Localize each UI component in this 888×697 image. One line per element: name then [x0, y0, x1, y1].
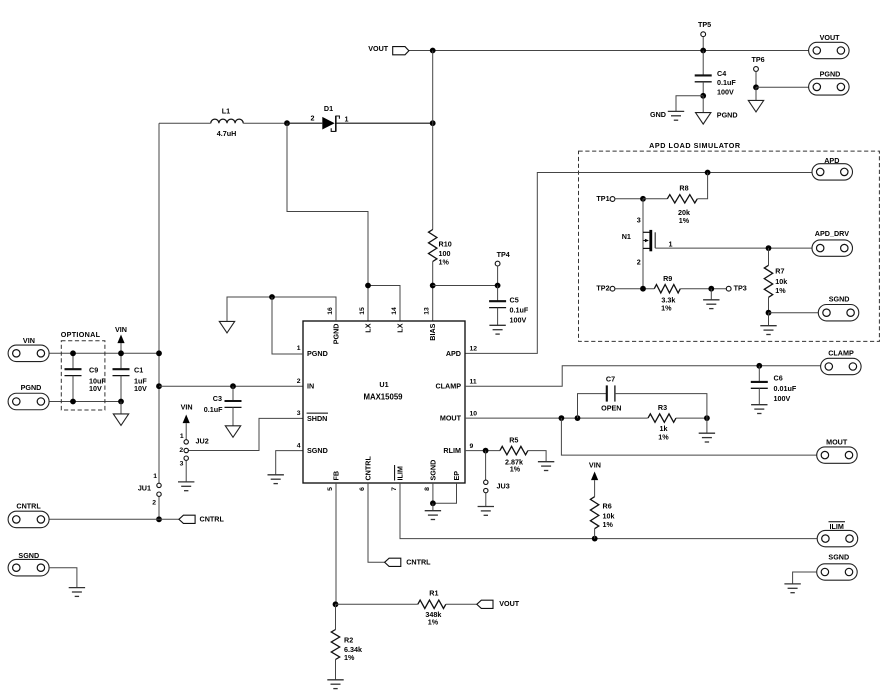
svg-text:APD: APD [446, 349, 461, 358]
wire to SGND connector (box) [769, 313, 819, 326]
svg-text:SHDN: SHDN [307, 414, 327, 423]
resistor R9 [654, 274, 726, 313]
jumper JU3 [484, 451, 510, 507]
svg-text:N1: N1 [622, 232, 631, 241]
svg-text:PGND: PGND [21, 383, 42, 392]
power arrow VIN (C1) [115, 325, 127, 353]
svg-text:FB: FB [332, 471, 341, 481]
ground below JU3 [478, 507, 494, 516]
svg-text:1%: 1% [661, 304, 672, 313]
connector MOUT [817, 437, 858, 463]
connector CNTRL (left) [8, 502, 49, 528]
svg-text:1%: 1% [603, 520, 614, 529]
ground triangle pin16 [219, 321, 234, 333]
svg-text:JU1: JU1 [138, 483, 151, 492]
ground triangle below TP6 [748, 100, 763, 112]
wire SGND right to ground [793, 572, 817, 584]
node C6 junction [756, 363, 762, 369]
svg-text:11: 11 [470, 379, 477, 386]
wire SGND pin8 and EP [433, 483, 457, 503]
wire to GND symbol [676, 96, 703, 112]
dashed box OPTIONAL [61, 330, 105, 410]
node drain junction [766, 245, 772, 251]
svg-text:2: 2 [152, 499, 156, 506]
svg-text:SGND: SGND [18, 551, 39, 560]
svg-text:15: 15 [359, 307, 366, 315]
ground below JU2 [178, 482, 194, 491]
svg-text:IN: IN [307, 382, 314, 391]
wire pin16 to pin1 PGND [272, 297, 303, 354]
svg-text:1%: 1% [679, 216, 690, 225]
connector VOUT (right top) [809, 33, 850, 59]
svg-text:C7: C7 [606, 374, 615, 383]
net tag VOUT (R1) [477, 599, 520, 609]
capacitor C7 (parallel, open) [578, 374, 707, 418]
svg-text:4.7uH: 4.7uH [217, 129, 237, 138]
svg-text:8: 8 [424, 487, 431, 491]
connector CLAMP [821, 349, 862, 375]
svg-text:R6: R6 [603, 502, 612, 511]
svg-text:SGND: SGND [307, 446, 328, 455]
svg-text:ILIM: ILIM [830, 522, 844, 531]
op-amp U1 MAX15059 (IC body) [297, 307, 478, 491]
wire L1 left lead [159, 122, 211, 124]
svg-text:0.1uF: 0.1uF [510, 306, 529, 315]
svg-text:2: 2 [297, 378, 301, 385]
svg-text:1: 1 [345, 115, 349, 124]
svg-text:1%: 1% [439, 257, 450, 266]
svg-text:R5: R5 [509, 435, 518, 444]
node D1 cathode junction [430, 120, 436, 126]
svg-text:1: 1 [669, 240, 673, 249]
capacitor C4 [695, 51, 737, 97]
svg-text:VOUT: VOUT [820, 33, 841, 42]
svg-text:MAX15059: MAX15059 [363, 392, 403, 401]
node R7 bottom junction [766, 310, 772, 316]
node L1-D1 junction [284, 120, 290, 126]
wire VOUT vertical to R10 [432, 51, 434, 230]
svg-text:C9: C9 [89, 366, 98, 375]
resistor R3 [648, 403, 707, 442]
resistor R10 [429, 230, 452, 267]
wire CLAMP net [465, 366, 821, 386]
wire RLIM pin9 [465, 450, 500, 452]
dashed box APD LOAD SIMULATOR [579, 141, 880, 342]
svg-text:VIN: VIN [23, 336, 35, 345]
svg-text:ILIM: ILIM [396, 466, 405, 480]
svg-text:10V: 10V [89, 384, 102, 393]
node TP5 junction [700, 48, 706, 54]
test point TP3 [726, 283, 746, 292]
svg-text:D1: D1 [324, 104, 333, 113]
test point TP5 [698, 20, 711, 51]
svg-text:PGND: PGND [820, 70, 841, 79]
wire R10 to BIAS pin 13 [432, 262, 434, 322]
svg-text:0.01uF: 0.01uF [774, 384, 797, 393]
svg-text:BIAS: BIAS [428, 323, 437, 340]
wire BIAS to TP4 [433, 285, 498, 287]
svg-text:3: 3 [297, 410, 301, 417]
node IN junction [156, 383, 162, 389]
svg-text:LX: LX [364, 323, 373, 332]
wire PGND pin16 net [227, 297, 336, 321]
jumper JU2 [179, 403, 208, 482]
node TP1 junction [640, 196, 646, 202]
transistor N1 (n-channel MOSFET) [622, 199, 673, 289]
svg-text:MOUT: MOUT [826, 437, 848, 446]
svg-text:1%: 1% [658, 432, 669, 441]
ground below R5 [538, 462, 554, 471]
svg-text:R9: R9 [663, 274, 672, 283]
svg-text:CNTRL: CNTRL [406, 558, 431, 567]
svg-text:1%: 1% [510, 464, 521, 473]
svg-text:APD_DRV: APD_DRV [815, 229, 849, 238]
jumper JU1 [138, 473, 161, 506]
inductor L1 [211, 107, 243, 139]
wire SHDN net (pin 3 to JU2) [188, 418, 303, 450]
ground below TP3 node [703, 289, 719, 309]
svg-text:3: 3 [180, 461, 184, 468]
svg-text:VIN: VIN [589, 461, 601, 470]
node C9 top [70, 350, 76, 356]
ground below SGND connector [69, 588, 85, 597]
svg-text:VOUT: VOUT [499, 599, 520, 608]
svg-text:VIN: VIN [181, 403, 193, 412]
svg-text:TP4: TP4 [497, 250, 510, 259]
svg-text:MOUT: MOUT [440, 414, 462, 423]
svg-text:VIN: VIN [115, 325, 127, 334]
svg-text:7: 7 [391, 487, 398, 491]
connector PGND (right top) [809, 70, 850, 96]
svg-text:13: 13 [424, 307, 431, 315]
svg-text:5: 5 [327, 487, 334, 491]
connector SGND (right bottom) [817, 553, 858, 581]
node TP6 junction [753, 84, 759, 90]
svg-text:U1: U1 [379, 380, 388, 389]
svg-text:1%: 1% [428, 618, 439, 627]
svg-text:6: 6 [359, 487, 366, 491]
node R3 right junction [704, 415, 710, 421]
node BIAS junction [430, 283, 436, 289]
connector VIN (left) [8, 336, 49, 362]
connector APD_DRV [812, 229, 853, 256]
svg-text:R2: R2 [344, 635, 353, 644]
svg-text:12: 12 [470, 346, 478, 353]
resistor R6 [590, 497, 614, 539]
resistor R8 [643, 173, 708, 226]
resistor R5 [500, 435, 546, 473]
wire PGND input net [49, 401, 121, 403]
node C9 bottom [70, 399, 76, 405]
svg-text:PGND: PGND [717, 111, 738, 120]
svg-text:JU2: JU2 [196, 436, 209, 445]
svg-text:C6: C6 [774, 373, 783, 382]
svg-text:OPEN: OPEN [601, 404, 621, 413]
svg-text:TP2: TP2 [596, 283, 609, 292]
svg-text:CLAMP: CLAMP [435, 382, 461, 391]
svg-text:RLIM: RLIM [443, 446, 461, 455]
node R6 junction [592, 536, 598, 542]
ground below R7 [760, 326, 776, 335]
capacitor C3 [204, 386, 242, 426]
svg-text:SGND: SGND [828, 553, 849, 562]
svg-text:1: 1 [180, 433, 184, 440]
wire LX net (L1 to LX pins) [287, 123, 400, 321]
svg-text:10V: 10V [134, 384, 147, 393]
svg-text:1: 1 [153, 473, 157, 480]
svg-text:CNTRL: CNTRL [364, 456, 373, 481]
svg-text:CLAMP: CLAMP [828, 349, 854, 358]
svg-text:EP: EP [452, 471, 461, 481]
node MOUT junction 2 [575, 415, 581, 421]
ground GND (signal) [650, 110, 684, 120]
wire VIN input net [49, 352, 159, 354]
svg-text:C1: C1 [134, 366, 143, 375]
ground PGND (triangle) [696, 111, 738, 125]
net tag CNTRL (left) [179, 514, 225, 523]
node pin8 junction [430, 500, 436, 506]
connector SGND (left) [8, 551, 49, 576]
wire L1 right lead [243, 122, 287, 124]
svg-text:GND: GND [650, 110, 666, 119]
svg-text:SGND: SGND [829, 294, 850, 303]
ground below R3 [699, 418, 715, 442]
test point TP6 [752, 55, 765, 88]
svg-text:TP5: TP5 [698, 20, 711, 29]
wire VOUT net top [409, 50, 809, 52]
connector SGND (box) [818, 294, 859, 321]
svg-text:1%: 1% [775, 286, 786, 295]
ground triangle below C1 [113, 402, 128, 426]
node VOUT junction [430, 48, 436, 54]
wire CNTRL net [49, 518, 179, 520]
connector ILIM [817, 522, 858, 547]
svg-text:L1: L1 [222, 107, 230, 116]
ground below C5 [489, 325, 505, 334]
net tag VOUT (top) [368, 44, 409, 55]
svg-text:16: 16 [327, 307, 334, 315]
svg-text:C3: C3 [213, 394, 222, 403]
node C3 junction [230, 383, 236, 389]
node C1 bottom [118, 399, 124, 405]
wire SGND to ground [49, 568, 77, 588]
svg-text:CNTRL: CNTRL [200, 514, 225, 523]
svg-text:TP3: TP3 [734, 283, 747, 292]
wire APD net into box [465, 173, 812, 354]
svg-text:TP6: TP6 [752, 55, 765, 64]
svg-text:LX: LX [396, 323, 405, 332]
wire N1 drain to APD_DRV [655, 247, 812, 249]
svg-text:PGND: PGND [332, 324, 341, 345]
node TP2 junction [640, 286, 646, 292]
node CNTRL junction [156, 516, 162, 522]
svg-text:100V: 100V [717, 87, 734, 96]
wire MOUT to connector [561, 418, 816, 455]
svg-text:0.1uF: 0.1uF [717, 78, 736, 87]
svg-text:SGND: SGND [429, 460, 438, 481]
wire main left vertical [158, 123, 160, 519]
resistor R2 [331, 604, 362, 680]
wire TP6 to PGND connector [756, 87, 809, 100]
node LX junction [365, 283, 371, 289]
svg-text:10: 10 [470, 410, 478, 417]
node C1 top [118, 350, 124, 356]
svg-text:TP1: TP1 [596, 194, 609, 203]
wire FB pin5 [335, 483, 337, 604]
wire SGND pin 4 to ground [276, 451, 303, 475]
test point TP2 [596, 283, 654, 292]
node R9-TP3 junction [708, 286, 714, 292]
svg-text:C5: C5 [510, 296, 519, 305]
ground triangle below C3 [225, 426, 240, 438]
svg-text:OPTIONAL: OPTIONAL [61, 330, 101, 339]
resistor R1 [336, 588, 477, 626]
svg-text:0.1uF: 0.1uF [204, 405, 223, 414]
svg-text:4: 4 [297, 442, 301, 449]
svg-text:JU3: JU3 [497, 482, 510, 491]
svg-text:3: 3 [637, 216, 641, 225]
svg-text:C4: C4 [717, 69, 726, 78]
svg-text:PGND: PGND [307, 349, 328, 358]
resistor R7 [764, 248, 787, 313]
ground below pin 4 [268, 475, 284, 484]
node APD junction [705, 170, 711, 176]
capacitor C5 [489, 286, 529, 326]
svg-text:APD LOAD SIMULATOR: APD LOAD SIMULATOR [649, 141, 741, 150]
svg-text:R1: R1 [429, 588, 438, 597]
node TP4 junction [495, 283, 501, 289]
test point TP4 [495, 250, 510, 286]
svg-text:100V: 100V [510, 316, 527, 325]
svg-text:14: 14 [391, 307, 398, 315]
test point TP1 [596, 194, 643, 203]
capacitor C6 [751, 366, 797, 405]
svg-text:2: 2 [311, 114, 315, 123]
svg-text:R3: R3 [658, 403, 667, 412]
diode D1 (schottky) [287, 104, 433, 132]
svg-text:2: 2 [637, 257, 641, 266]
ground below R2 [327, 680, 343, 689]
node C4 bottom junction [700, 93, 706, 99]
svg-text:R8: R8 [679, 184, 688, 193]
svg-text:9: 9 [470, 443, 474, 450]
net tag CNTRL (pin6) [385, 558, 432, 567]
node FB junction [333, 601, 339, 607]
capacitor C1 [113, 353, 148, 401]
connector APD [812, 156, 853, 180]
node RLIM junction [483, 448, 489, 454]
svg-text:CNTRL: CNTRL [16, 502, 41, 511]
wire to PGND symbol [702, 96, 704, 113]
node pin16 junction [269, 294, 275, 300]
svg-text:R7: R7 [775, 267, 784, 276]
power arrow VIN (R6) [589, 461, 601, 497]
svg-text:100V: 100V [774, 394, 791, 403]
svg-text:VOUT: VOUT [368, 44, 389, 53]
svg-text:2: 2 [179, 447, 183, 454]
node VIN junction [156, 350, 162, 356]
ground below SGND right [784, 584, 800, 593]
wire ILIM pin7 net [400, 483, 817, 539]
connector PGND (left) [8, 383, 49, 410]
svg-text:10k: 10k [775, 277, 787, 286]
wire MOUT pin10 net [465, 417, 648, 419]
svg-text:1%: 1% [344, 653, 355, 662]
wire IN net to pin 2 [159, 385, 303, 387]
ground below pin8 [425, 503, 441, 519]
node MOUT junction 1 [559, 415, 565, 421]
ground below C6 [751, 405, 767, 414]
capacitor C9 [65, 353, 107, 401]
svg-text:R10: R10 [439, 239, 452, 248]
svg-text:1: 1 [297, 345, 301, 352]
wire CNTRL pin6 [368, 483, 385, 562]
